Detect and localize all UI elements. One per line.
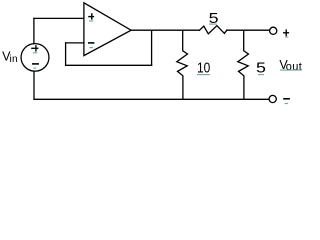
- wire output rail right: [227, 29, 270, 31]
- source minus underline: [33, 67, 36, 69]
- wire non-inverting input: [34, 17, 84, 19]
- wire feedback left vertical: [65, 43, 67, 65]
- terminal + sign: [283, 29, 289, 36]
- wire feedback right vertical: [151, 30, 153, 65]
- wire feedback bottom: [66, 64, 152, 66]
- op-amp minus label: [88, 42, 94, 44]
- op-amp plus label: [88, 13, 94, 20]
- ground rail bottom wire: [34, 98, 269, 100]
- terminal + underline: [285, 36, 288, 38]
- resistor R2 value 10 shunt: [177, 30, 188, 99]
- source plus sign: [31, 45, 38, 52]
- underline 5 series: [209, 23, 217, 25]
- terminal - sign: [283, 98, 290, 100]
- terminal - underline: [285, 103, 289, 105]
- wire source bottom vertical: [33, 71, 35, 99]
- underline 5 load: [258, 74, 264, 76]
- voltage source Vin: [21, 44, 49, 72]
- terminal + circle: [270, 27, 277, 34]
- underline 10: [197, 74, 210, 76]
- svg-text:in: in: [10, 54, 18, 65]
- op-amp minus underline: [89, 47, 93, 49]
- op-amp plus underline: [89, 20, 93, 22]
- wire inverting input: [66, 42, 84, 44]
- resistor R3 value 5 load: [238, 30, 249, 99]
- wire output rail left: [131, 29, 199, 31]
- source plus underline: [33, 52, 37, 54]
- source minus sign: [32, 63, 39, 65]
- op-amp U1: [84, 3, 131, 56]
- svg-text:out: out: [286, 61, 303, 73]
- resistor R1 value 5 series horizontal: [200, 26, 227, 34]
- underline Vout: [280, 69, 302, 71]
- svg-text:5: 5: [256, 60, 266, 77]
- terminal - circle: [269, 95, 276, 102]
- wire source top vertical: [33, 18, 35, 43]
